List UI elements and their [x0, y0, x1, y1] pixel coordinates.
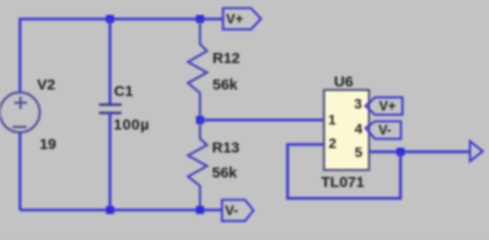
svg-text:V-: V- [379, 123, 392, 138]
wire top rail to V+ flag [200, 18, 223, 21]
wire bottom rail [20, 209, 222, 212]
svg-text:C1: C1 [114, 83, 133, 100]
wire pin 5 output [369, 150, 470, 153]
svg-text:R13: R13 [212, 140, 240, 157]
svg-text:1: 1 [328, 112, 336, 128]
capacitor C1 [99, 105, 122, 113]
junction C1 top [106, 15, 114, 23]
output port arrow [470, 141, 483, 161]
resistor R13 [188, 120, 207, 210]
flag V- (pin 4) [366, 121, 401, 139]
svg-text:R12: R12 [213, 50, 241, 67]
svg-text:19: 19 [40, 136, 57, 153]
svg-text:100µ: 100µ [114, 117, 150, 134]
resistor R12 [188, 19, 207, 120]
junction R13 bottom [196, 206, 204, 214]
junction output node [397, 148, 405, 156]
svg-text:56k: 56k [212, 164, 238, 181]
junction R12/R13 node [196, 116, 204, 124]
svg-text:3: 3 [354, 96, 362, 112]
svg-text:2: 2 [329, 135, 337, 151]
svg-text:V-: V- [225, 203, 238, 218]
wire C1 top lead [109, 19, 112, 105]
svg-text:5: 5 [355, 144, 363, 160]
junction R12 top [196, 15, 204, 23]
svg-text:4: 4 [355, 120, 363, 136]
svg-text:V2: V2 [37, 77, 55, 94]
flag V+ (top supply) [223, 8, 261, 29]
wire V2 bottom [19, 132, 22, 210]
svg-text:TL071: TL071 [321, 174, 364, 191]
flag V- (bottom supply) [222, 200, 254, 221]
wire C1 bottom lead [109, 113, 112, 210]
svg-text:V+: V+ [226, 12, 243, 27]
wire feedback loop (output to pin 2) [288, 145, 401, 199]
svg-text:V+: V+ [379, 99, 396, 114]
wire node to op-amp pin 1 [200, 119, 324, 122]
svg-text:56k: 56k [213, 76, 239, 93]
voltage source V2 [0, 92, 40, 132]
junction C1 bottom [106, 206, 114, 214]
op-amp U6 body [324, 90, 369, 170]
svg-text:U6: U6 [334, 73, 353, 90]
wire top rail (V2 top to R12 top) [20, 19, 200, 93]
flag V+ (pin 3) [366, 97, 403, 114]
